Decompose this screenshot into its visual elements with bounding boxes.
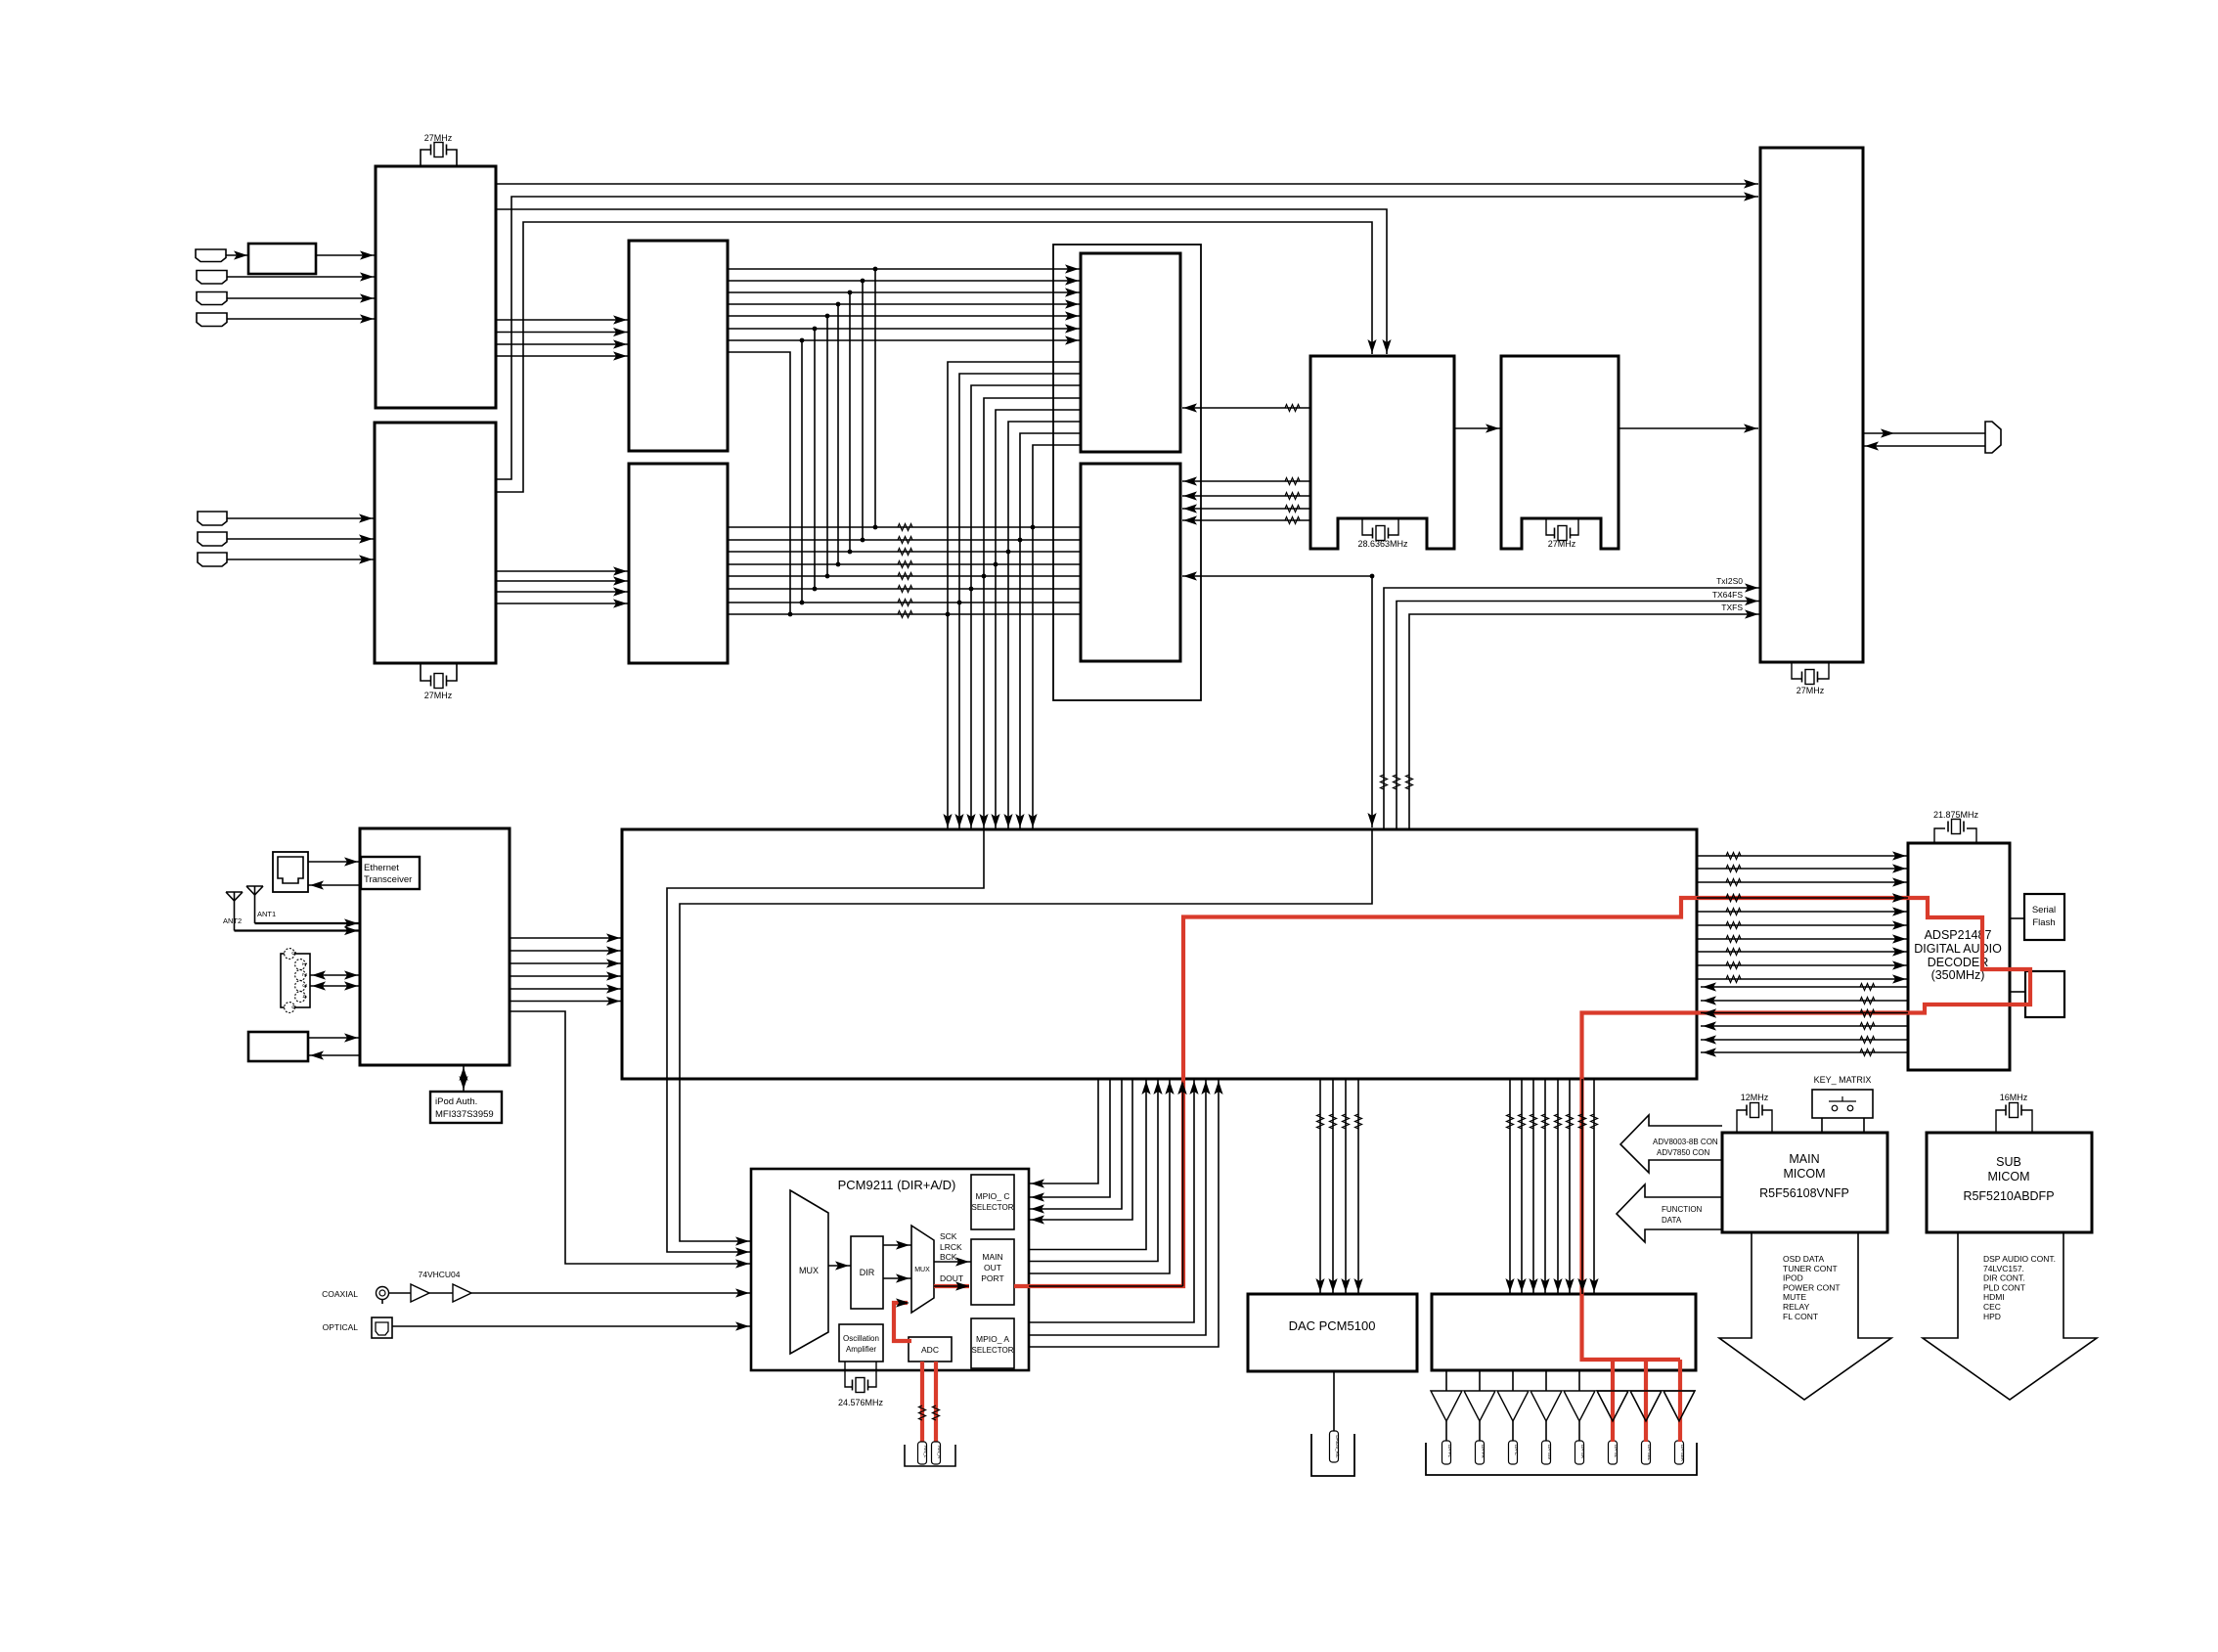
svg-text:Oscillation: Oscillation xyxy=(843,1334,879,1343)
connector tag HDMI-IN2 xyxy=(197,271,227,285)
connector tag DA-SBR xyxy=(1675,1441,1684,1464)
svg-text:SUB: SUB xyxy=(1996,1155,2021,1169)
block Oscillation Amplifier xyxy=(839,1324,883,1362)
inverter 74VHCU04 second xyxy=(453,1284,471,1302)
svg-text:16MHz: 16MHz xyxy=(2000,1093,2028,1102)
block U6 video PLL (28.6363MHz) xyxy=(1310,356,1454,549)
wire bus U7a left rows to CPU U10 top (8 elbow lines) xyxy=(943,362,1081,828)
svg-text:Ethernet: Ethernet xyxy=(364,863,399,873)
bracket under AIN tags xyxy=(905,1445,955,1466)
connector RJ45 jack xyxy=(273,852,308,892)
wire lower box to U9 xyxy=(308,1037,360,1039)
svg-text:MFI337S3959: MFI337S3959 xyxy=(435,1109,494,1120)
block SPDIF box below Serial Flash xyxy=(2025,971,2064,1017)
wire bundle U1 to U4 (4 lines) xyxy=(496,315,629,360)
crystal X3 28.6363MHz in U6 notch xyxy=(1362,518,1373,535)
connector tag IN5 xyxy=(198,512,227,525)
block MPIO_A SELECTOR xyxy=(971,1318,1014,1368)
svg-text:DIR CONT.: DIR CONT. xyxy=(1983,1273,2025,1283)
wire bundle U10 to DAC (4 lines with resistors) xyxy=(1315,1079,1362,1294)
red branch verticals to DA-SL DA-SBL DA-SBR tags xyxy=(1611,1360,1615,1442)
svg-text:LRCK: LRCK xyxy=(940,1242,962,1252)
svg-text:DA-SL: DA-SL xyxy=(1614,1445,1619,1458)
crystal X2 27MHz circuit below block U3 xyxy=(421,663,431,681)
svg-text:SELECTOR: SELECTOR xyxy=(972,1346,1014,1355)
block U7 video encoder (27MHz) xyxy=(1501,356,1619,549)
connector tag HDMI-IN4 xyxy=(197,313,227,327)
svg-text:(350MHz): (350MHz) xyxy=(1931,968,1985,982)
outer box around U7a/U7b xyxy=(1053,245,1201,700)
wire HDMI out connector to U8 return xyxy=(1863,445,1985,447)
svg-text:DAC PCM5100: DAC PCM5100 xyxy=(1289,1318,1376,1333)
crystal X4 27MHz in U7 notch xyxy=(1546,518,1555,535)
wire bundle U9 to U10 (6 lines) xyxy=(510,933,622,1005)
svg-text:ADC: ADC xyxy=(921,1345,939,1355)
block U9 network/iPod interface xyxy=(360,828,510,1065)
wire U2 to U1 block1 xyxy=(316,254,376,256)
svg-text:12MHz: 12MHz xyxy=(1741,1093,1769,1102)
svg-text:DSP AUDIO CONT.: DSP AUDIO CONT. xyxy=(1983,1254,2056,1264)
svg-text:DA-SBL: DA-SBL xyxy=(1647,1445,1652,1461)
crystal X6 24.576MHz below PCM9211 xyxy=(845,1362,852,1387)
block U13 DAC PCM5100 xyxy=(1248,1294,1417,1371)
svg-text:6: 6 xyxy=(290,1005,297,1009)
svg-text:DATA: DATA xyxy=(1662,1216,1682,1225)
svg-text:PCM9211 (DIR+A/D): PCM9211 (DIR+A/D) xyxy=(838,1178,956,1192)
wire block U1 to HDMI TX U8 row1 xyxy=(496,183,1758,185)
svg-text:OPTICAL: OPTICAL xyxy=(323,1322,359,1332)
wire COAXIAL to PCM9211 xyxy=(389,1292,412,1294)
svg-text:27MHz: 27MHz xyxy=(1797,686,1825,695)
crystal X9 16MHz above SUB MICOM xyxy=(1996,1110,2006,1133)
connector tag IN6 xyxy=(198,532,227,546)
block U7a (upper inner) xyxy=(1081,253,1180,452)
wire DAC output to tag xyxy=(1333,1371,1335,1431)
svg-text:TxI2S0: TxI2S0 xyxy=(1716,576,1743,586)
wire TXFS CPU to U8 (with resistor) xyxy=(1409,614,1760,828)
wire tag2 to block1 xyxy=(227,276,376,278)
wire MUX1 to DIR xyxy=(828,1265,851,1267)
wire DIR to MUX2 line1 xyxy=(883,1244,911,1246)
svg-text:RELAY: RELAY xyxy=(1783,1302,1810,1312)
connector tag DA-SW xyxy=(1542,1441,1551,1464)
svg-text:MICOM: MICOM xyxy=(1987,1170,2029,1183)
connector 6-pin (USB/serial) xyxy=(281,954,310,1007)
svg-text:ADV8003-8B CON: ADV8003-8B CON xyxy=(1653,1138,1718,1146)
block arrow ADV8003-8B CON / ADV7850 CON xyxy=(1620,1115,1722,1173)
svg-text:ADV7850 CON: ADV7850 CON xyxy=(1657,1148,1709,1157)
wire bundle U10 to MPIO_C (4 lines) xyxy=(1030,1079,1132,1225)
svg-text:MAIN: MAIN xyxy=(1789,1152,1819,1166)
block arrow down SUB MICOM outputs xyxy=(1923,1232,2097,1400)
wire feed-through L2: node 1403 through U10 to PCM9211 input 1 xyxy=(680,829,1372,1241)
svg-text:HPD: HPD xyxy=(1983,1312,2001,1321)
block U5 (TMDS mux lower) xyxy=(629,464,728,663)
wire DIR to MUX2 line2 xyxy=(883,1277,911,1279)
antenna ANT1 xyxy=(246,885,263,887)
block U12 ADSP21487 digital audio decoder xyxy=(1908,843,2010,1070)
svg-text:MUX: MUX xyxy=(914,1267,930,1273)
svg-text:TX64FS: TX64FS xyxy=(1712,590,1744,600)
svg-text:MUTE: MUTE xyxy=(1783,1292,1806,1302)
crystal X7 21.875MHz above ADSP xyxy=(1934,828,1945,843)
buffer amplifier B7 xyxy=(1645,1370,1647,1391)
black arrowheads over red at MUX2 and MAIN OUT PORT xyxy=(896,1298,909,1307)
svg-text:DA-SBR: DA-SBR xyxy=(1680,1445,1685,1462)
wire RJ45 to U9 xyxy=(308,861,360,863)
connector tag DA-FR xyxy=(1476,1441,1485,1464)
wire U9 to iPod Auth bidirectional xyxy=(463,1065,465,1092)
svg-text:SCK: SCK xyxy=(940,1231,957,1241)
svg-text:MAIN: MAIN xyxy=(982,1252,1002,1262)
wire tap verticals U4-rows to U5-rows (7 lines) xyxy=(800,269,878,604)
block U15 MAIN MICOM R5F56108VNFP xyxy=(1722,1133,1887,1232)
block U11 PCM9211 (DIR+A/D) xyxy=(751,1169,1029,1370)
block arrow down MAIN MICOM outputs xyxy=(1719,1232,1891,1400)
wire ADSP to SPDIF box xyxy=(2010,991,2025,993)
svg-text:74LVC157.: 74LVC157. xyxy=(1983,1264,2024,1273)
buffer amplifier B1 xyxy=(1445,1370,1447,1391)
wire bundle U10 to ADSP (10 lines with resistors) xyxy=(1697,851,1908,983)
svg-text:3: 3 xyxy=(301,984,308,988)
svg-text:OSD DATA: OSD DATA xyxy=(1783,1254,1825,1264)
connector tag DA620_R/L xyxy=(1330,1431,1339,1462)
svg-text:HDMI: HDMI xyxy=(1983,1292,2005,1302)
label box Ethernet Transceiver xyxy=(361,857,420,889)
buffer amplifier B6 xyxy=(1612,1370,1614,1391)
block arrow FUNCTION DATA xyxy=(1617,1184,1722,1242)
svg-text:2: 2 xyxy=(301,973,308,977)
svg-text:DA620_R/L: DA620_R/L xyxy=(1335,1435,1340,1458)
svg-text:Serial: Serial xyxy=(2032,905,2056,915)
block DIR in PCM9211 xyxy=(851,1236,883,1309)
small box lower-left (front USB) xyxy=(248,1032,308,1061)
wire OPTICAL to PCM9211 xyxy=(392,1325,751,1327)
wire U6 to U7a (1 line with resistor) xyxy=(1182,407,1310,409)
svg-text:ANT2: ANT2 xyxy=(223,916,242,925)
wire tag7 to block U3 xyxy=(227,558,375,560)
connector tag DA-SBL xyxy=(1642,1441,1651,1464)
svg-text:DA-C: DA-C xyxy=(1514,1445,1519,1456)
svg-text:R5F5210ABDFP: R5F5210ABDFP xyxy=(1963,1189,2054,1203)
svg-text:DA-SR: DA-SR xyxy=(1580,1445,1585,1459)
svg-text:MICOM: MICOM xyxy=(1783,1167,1825,1181)
bracket under DAC output xyxy=(1311,1434,1354,1476)
block U3 HDMI receiver 2 (left, lower) xyxy=(375,423,496,663)
wire ANT1 to U9 xyxy=(255,922,361,924)
svg-text:KEY_ MATRIX: KEY_ MATRIX xyxy=(1814,1075,1872,1085)
wire bundle U10 to buffer block (8 lines with resistors) xyxy=(1505,1079,1598,1294)
wire MUX2 to MAIN OUT PORT (SCK/LRCK/BCK) xyxy=(934,1261,971,1263)
svg-text:Transceiver: Transceiver xyxy=(364,874,412,885)
connector tag IN7 xyxy=(198,553,227,566)
wire U4 row8 to U5 row8 via vertical xyxy=(728,352,790,614)
svg-text:74VHCU04: 74VHCU04 xyxy=(419,1270,461,1279)
svg-text:AIN_R: AIN_R xyxy=(937,1446,942,1459)
wire U9 to lower box return xyxy=(308,1054,360,1056)
small box U2 (HDMI front-end) xyxy=(248,244,316,274)
svg-text:Flash: Flash xyxy=(2032,917,2055,928)
svg-text:1: 1 xyxy=(301,962,308,966)
red route DOUT from PCM9211 through U10 to ADSP and back to buffers xyxy=(934,1284,969,1288)
block U16 SUB MICOM R5F5210ABDFP xyxy=(1927,1133,2092,1232)
svg-text:IPOD: IPOD xyxy=(1783,1273,1803,1283)
wire tag6 to block U3 xyxy=(227,538,375,540)
svg-text:21.875MHz: 21.875MHz xyxy=(1933,810,1979,820)
wire U7 to U8 xyxy=(1619,427,1758,429)
svg-text:DA-FL: DA-FL xyxy=(1447,1445,1452,1457)
svg-text:OUT: OUT xyxy=(984,1263,1001,1272)
crystal X5 27MHz below U8 xyxy=(1792,662,1802,679)
connector tag DA-C xyxy=(1509,1441,1518,1464)
svg-text:27MHz: 27MHz xyxy=(1548,539,1576,549)
svg-text:DECODER: DECODER xyxy=(1928,956,1989,969)
wire block U3 via riser to HDMI TX U8 row2 xyxy=(496,197,1758,479)
wire tag3 to block1 xyxy=(227,297,376,299)
red wires ADC to AIN tags (with resistors) xyxy=(920,1362,924,1442)
svg-text:28.6363MHz: 28.6363MHz xyxy=(1357,539,1408,549)
connector tag DA-SR xyxy=(1575,1441,1584,1464)
wire 6pin pin3 to U9 bidirectional xyxy=(310,985,360,987)
wire bundle ADSP to U10 return (6 lines with resistors) xyxy=(1701,982,1908,1056)
svg-text:FL CONT: FL CONT xyxy=(1783,1312,1818,1321)
buffer amplifier B2 xyxy=(1479,1370,1481,1391)
wire ANT2 to U9 xyxy=(235,929,361,931)
label box iPod Auth MFI337S3959 xyxy=(430,1092,502,1123)
wire U9 to RJ45 return xyxy=(308,884,360,886)
svg-text:TXFS: TXFS xyxy=(1721,603,1743,612)
block U14 output buffer row xyxy=(1432,1294,1696,1370)
svg-text:BCK: BCK xyxy=(940,1252,957,1262)
svg-text:SELECTOR: SELECTOR xyxy=(972,1203,1014,1212)
wire bundle U3 to U5 (4 lines) xyxy=(496,566,629,607)
svg-text:DA-FR: DA-FR xyxy=(1481,1445,1486,1458)
crystal X8 12MHz above MAIN MICOM xyxy=(1737,1110,1747,1133)
connector HDMI output jack xyxy=(1985,422,2001,453)
svg-text:DA-SW: DA-SW xyxy=(1547,1445,1552,1460)
svg-text:4: 4 xyxy=(301,995,308,999)
svg-text:5: 5 xyxy=(290,952,297,956)
svg-text:DIR: DIR xyxy=(860,1268,875,1277)
buffer amplifier B8 xyxy=(1678,1370,1680,1391)
block U10 main SoC (wide) xyxy=(622,829,1697,1079)
block U1 HDMI receiver (top-left) xyxy=(376,166,496,408)
wire bundle U4 to U7a (7 lines with taps) xyxy=(728,264,1081,344)
antenna ANT2 xyxy=(226,891,243,893)
wire block U3 via riser to U6 top xyxy=(496,222,1372,492)
wire 6pin pin2 to U9 bidirectional xyxy=(310,974,360,976)
red route ADC input loop xyxy=(894,1303,911,1341)
wire U6 to U7 xyxy=(1454,427,1501,429)
buffer amplifier B4 xyxy=(1545,1370,1547,1391)
connector tag HDMI-IN1 xyxy=(196,249,226,262)
svg-text:27MHz: 27MHz xyxy=(424,133,453,143)
svg-text:DIGITAL AUDIO: DIGITAL AUDIO xyxy=(1914,942,2002,956)
connector tag DA-SL xyxy=(1609,1441,1618,1464)
mux symbol MUX2 in PCM9211 xyxy=(911,1226,934,1313)
block ADC in PCM9211 xyxy=(909,1337,952,1362)
wire tag4 to block1 xyxy=(227,318,376,320)
svg-text:ANT1: ANT1 xyxy=(257,910,276,918)
black details re-drawn over red route xyxy=(1697,897,1908,899)
wire bundle U5 to U7b (8 lines with series resistors) xyxy=(728,524,1081,618)
buffer amplifier B5 xyxy=(1578,1370,1580,1391)
svg-text:POWER CONT: POWER CONT xyxy=(1783,1282,1841,1292)
wire U8 to HDMI out connector xyxy=(1863,432,1985,434)
wire tag5 to block U3 xyxy=(227,517,375,519)
svg-text:MPIO_ A: MPIO_ A xyxy=(976,1334,1009,1344)
wire bundle U6 to U7b (4 lines with resistors) xyxy=(1182,476,1310,524)
wire tag1 to U2 xyxy=(226,254,248,256)
svg-text:R5F56108VNFP: R5F56108VNFP xyxy=(1759,1186,1849,1200)
svg-text:MPIO_ C: MPIO_ C xyxy=(976,1191,1010,1201)
wire bundle PCM9211 outputs up to U10 bottom (7 lines) xyxy=(1029,1079,1223,1347)
wire TX64FS CPU to U8 (with resistor) xyxy=(1397,602,1760,829)
svg-text:AIN_L: AIN_L xyxy=(923,1446,928,1458)
svg-text:iPod Auth.: iPod Auth. xyxy=(435,1096,477,1107)
bracket under buffer outputs xyxy=(1426,1443,1697,1475)
block MPIO_C SELECTOR xyxy=(971,1175,1014,1229)
wire TxI2S0 CPU to U8 (with resistor) xyxy=(1384,588,1760,828)
block MAIN OUT PORT xyxy=(971,1239,1014,1305)
svg-text:27MHz: 27MHz xyxy=(424,691,453,700)
block U8 HDMI transmitter (tall right) xyxy=(1760,148,1863,662)
crystal X1 27MHz circuit above block U1 xyxy=(421,150,431,166)
svg-text:MUX: MUX xyxy=(799,1266,819,1275)
wire feed-through L1: U7a bus through U10 to PCM9211 input 2 xyxy=(667,829,984,1252)
wire KEY_MATRIX to MAIN MICOM stubs xyxy=(1821,1118,1823,1133)
svg-text:TUNER CONT: TUNER CONT xyxy=(1783,1264,1838,1273)
svg-text:COAXIAL: COAXIAL xyxy=(322,1289,358,1299)
block U7b (lower inner) xyxy=(1081,464,1180,661)
svg-text:24.576MHz: 24.576MHz xyxy=(838,1398,884,1407)
connector tag DA-FL xyxy=(1442,1441,1451,1464)
block U4 (TMDS mux upper) xyxy=(629,241,728,451)
wire block U1 to U6 top (27MHz domain) xyxy=(496,209,1387,354)
connector tags AIN_L AIN_R xyxy=(918,1442,927,1464)
wire ADSP to Serial Flash xyxy=(2010,917,2024,919)
svg-text:Amplifier: Amplifier xyxy=(846,1345,876,1354)
svg-text:PORT: PORT xyxy=(981,1273,1003,1283)
svg-text:CEC: CEC xyxy=(1983,1302,2001,1312)
svg-text:FUNCTION: FUNCTION xyxy=(1662,1205,1703,1214)
wire U9 bottom to PCM9211 mux input 3 xyxy=(510,1011,751,1264)
svg-text:DOUT: DOUT xyxy=(940,1273,963,1283)
connector tag HDMI-IN3 xyxy=(197,292,227,305)
wire node to U7b and CPU U10 top (junction at 1403,589) xyxy=(1182,575,1372,577)
buffer amplifier B3 xyxy=(1512,1370,1514,1391)
block Serial Flash xyxy=(2024,894,2064,940)
mux symbol MUX1 in PCM9211 xyxy=(790,1190,828,1354)
svg-text:PLD CONT: PLD CONT xyxy=(1983,1282,2025,1292)
